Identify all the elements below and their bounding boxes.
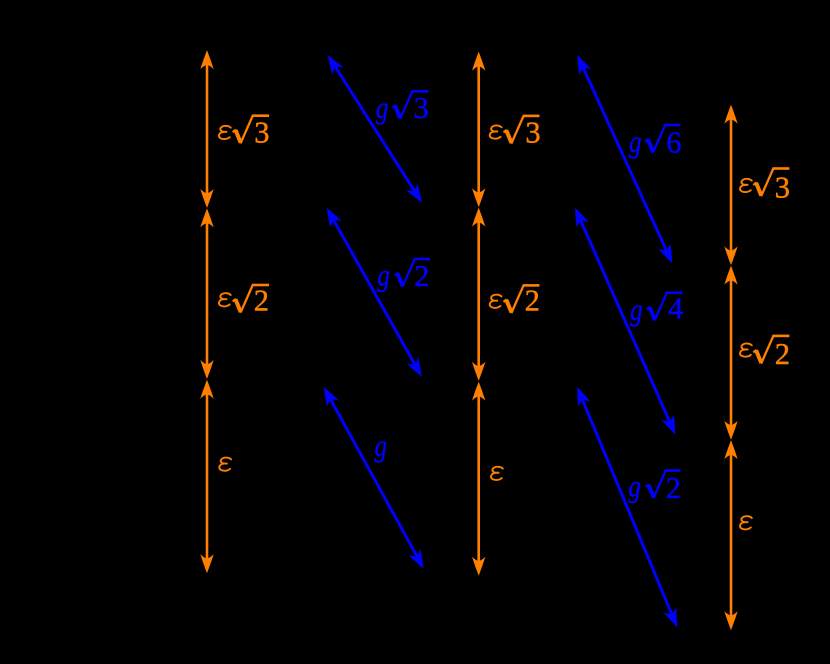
orange double arrow: column-2 gap epsilon*sqrt(2) (472, 208, 485, 381)
orange double arrow: column-2 gap epsilon (472, 382, 485, 576)
svg-text:g: g (630, 293, 643, 327)
label epsilon*sqrt(2) column-3 (740, 335, 790, 371)
label epsilon*sqrt(3) column-2 (490, 115, 541, 150)
label g*sqrt(6) (629, 124, 682, 160)
svg-text:g: g (377, 258, 390, 292)
label g*sqrt(3) (376, 90, 429, 125)
svg-text:2: 2 (414, 259, 429, 293)
blue double arrow: coupling g*sqrt(2) lower (571, 384, 683, 630)
blue double arrow: coupling g*sqrt(3) (322, 52, 427, 207)
orange double arrow: column-1 gap epsilon*sqrt(3) (200, 50, 213, 208)
blue double arrow: coupling g*sqrt(4) (569, 205, 681, 437)
blue double arrow: coupling g*sqrt(2) (321, 205, 428, 380)
label epsilon*sqrt(2) column-1 (219, 284, 269, 318)
orange double arrow: column-2 gap epsilon*sqrt(3) (472, 52, 485, 207)
orange double arrow: column-3 gap epsilon*sqrt(3) (724, 105, 737, 266)
blue double arrow: coupling g*sqrt(6) (571, 52, 678, 266)
label epsilon column-2 (491, 467, 503, 480)
label epsilon*sqrt(3) column-3 (740, 167, 790, 204)
label g*sqrt(4) (630, 292, 683, 327)
svg-text:4: 4 (668, 292, 683, 326)
label epsilon*sqrt(3) column-1 (219, 114, 270, 149)
svg-text:2: 2 (525, 284, 540, 318)
label epsilon column-1 (219, 458, 231, 471)
label g*sqrt(2) lower (628, 469, 681, 505)
orange double arrow: column-1 gap epsilon*sqrt(2) (200, 209, 213, 379)
label epsilon*sqrt(2) column-2 (490, 284, 540, 318)
svg-text:6: 6 (666, 125, 681, 159)
svg-text:g: g (375, 429, 388, 463)
svg-text:2: 2 (666, 471, 681, 505)
svg-text:3: 3 (254, 116, 269, 150)
svg-text:3: 3 (414, 91, 429, 125)
blue double arrow: coupling g (318, 384, 430, 572)
svg-text:g: g (376, 91, 389, 125)
svg-text:2: 2 (775, 337, 790, 371)
label g (375, 429, 388, 463)
svg-text:3: 3 (525, 116, 540, 150)
label g*sqrt(2) upper (377, 258, 430, 293)
svg-text:g: g (628, 469, 641, 503)
svg-text:g: g (629, 125, 642, 159)
orange double arrow: column-3 gap epsilon (724, 440, 737, 630)
label epsilon column-3 (740, 516, 752, 529)
svg-text:3: 3 (775, 171, 790, 205)
orange double arrow: column-1 gap epsilon (200, 380, 213, 573)
orange double arrow: column-3 gap epsilon*sqrt(2) (724, 266, 737, 440)
svg-text:2: 2 (254, 284, 269, 318)
